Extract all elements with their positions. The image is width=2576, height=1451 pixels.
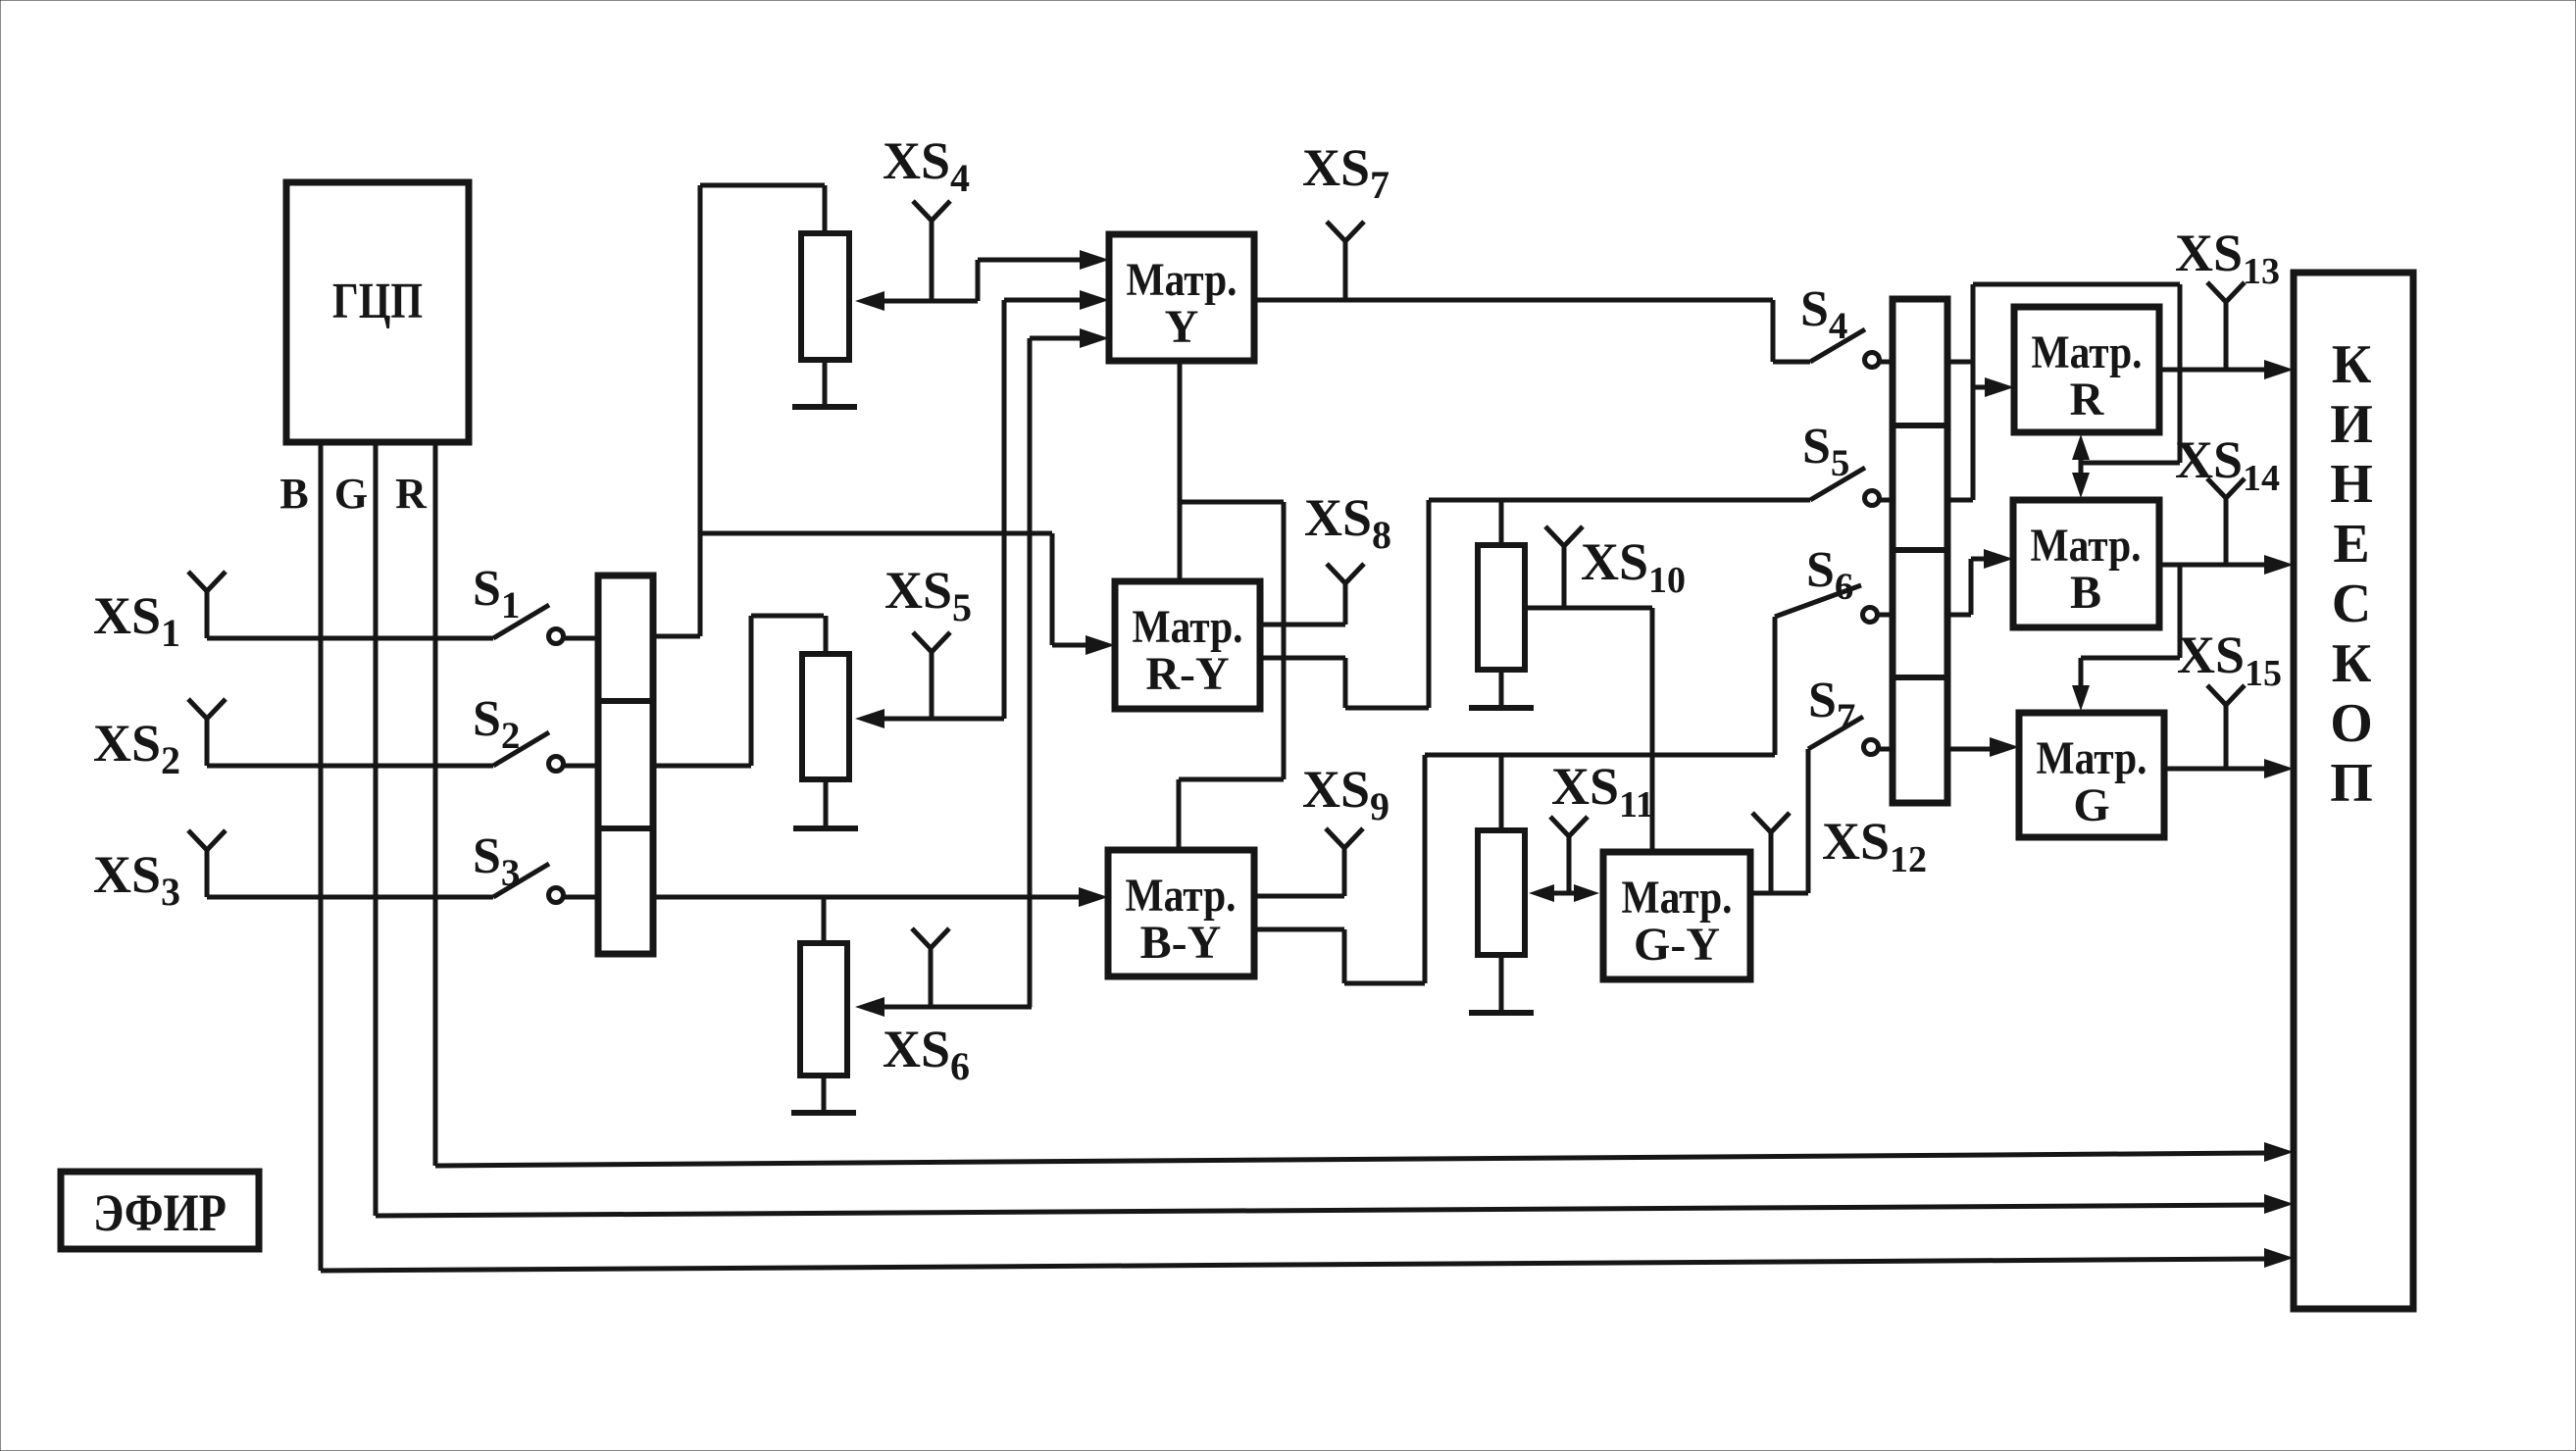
svg-text:Е: Е <box>2333 514 2369 575</box>
svg-text:О: О <box>2330 693 2373 754</box>
svg-text:Н: Н <box>2330 454 2373 515</box>
svg-text:Матр.: Матр. <box>1126 870 1237 922</box>
svg-text:К: К <box>2332 633 2372 694</box>
svg-text:ЭФИР: ЭФИР <box>93 1183 227 1242</box>
svg-text:П: П <box>2330 753 2373 814</box>
svg-text:B: B <box>2070 567 2101 619</box>
svg-text:Матр.: Матр. <box>2032 326 2143 378</box>
svg-text:G: G <box>2073 779 2109 831</box>
svg-text:Y: Y <box>1165 301 1199 353</box>
svg-text:B-Y: B-Y <box>1140 917 1222 969</box>
svg-text:R: R <box>2070 374 2105 425</box>
svg-text:Матр.: Матр. <box>2037 732 2147 784</box>
svg-text:R: R <box>395 470 428 518</box>
svg-text:Матр.: Матр. <box>1622 872 1733 924</box>
svg-text:ГЦП: ГЦП <box>332 274 423 329</box>
svg-text:С: С <box>2332 574 2371 634</box>
svg-text:G: G <box>334 470 368 518</box>
svg-text:К: К <box>2332 334 2372 395</box>
svg-text:R-Y: R-Y <box>1145 648 1229 700</box>
svg-text:B: B <box>279 470 308 518</box>
svg-text:Матр.: Матр. <box>2031 520 2142 572</box>
svg-text:G-Y: G-Y <box>1634 919 1720 971</box>
svg-text:Матр.: Матр. <box>1133 601 1243 653</box>
svg-text:И: И <box>2330 394 2373 455</box>
svg-text:Матр.: Матр. <box>1127 254 1237 306</box>
